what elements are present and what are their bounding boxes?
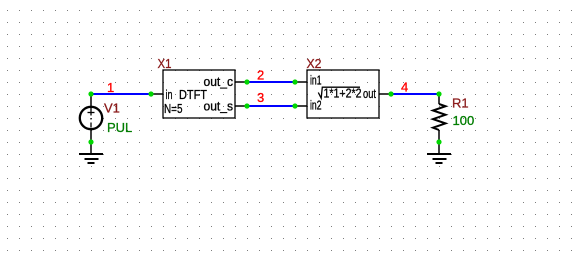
svg-text:out_s: out_s (204, 99, 234, 114)
svg-text:PUL: PUL (107, 120, 132, 135)
svg-text:4: 4 (401, 80, 408, 95)
wire net 3 (247, 105, 295, 107)
svg-text:out_c: out_c (204, 74, 234, 89)
svg-text:1*1+2*2: 1*1+2*2 (324, 86, 362, 101)
resistor R1 (433, 94, 446, 142)
voltage source V1 (80, 94, 102, 142)
svg-text:N=5: N=5 (164, 101, 183, 116)
svg-text:X2: X2 (307, 56, 322, 71)
svg-text:in: in (166, 87, 173, 102)
svg-text:1: 1 (107, 80, 114, 95)
svg-text:100: 100 (453, 113, 475, 128)
subcircuit X2 (295, 56, 391, 118)
wire net 1 (91, 93, 151, 95)
svg-text:in2: in2 (310, 98, 322, 113)
ground (V1) (79, 142, 103, 163)
svg-text:3: 3 (257, 90, 264, 105)
svg-text:in1: in1 (310, 73, 322, 88)
ground (R1) (427, 142, 451, 163)
wire net 2 (247, 81, 295, 83)
subcircuit X1 (151, 56, 247, 118)
svg-text:X1: X1 (158, 56, 172, 71)
junction nodes (green) (88, 79, 441, 144)
svg-text:out: out (363, 86, 376, 101)
svg-text:2: 2 (257, 68, 264, 83)
sqrt radical (318, 87, 360, 98)
svg-text:V1: V1 (104, 101, 120, 116)
svg-text:R1: R1 (452, 96, 469, 111)
wire net 4 (391, 93, 439, 95)
